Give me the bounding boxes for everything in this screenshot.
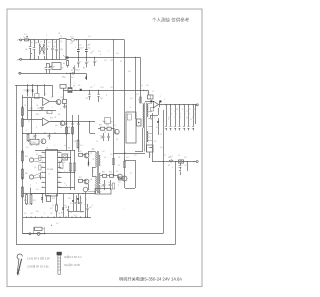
- svg-text:1N: 1N: [174, 117, 177, 119]
- svg-text:4u7: 4u7: [88, 44, 91, 46]
- wire loop outer bottom: [16, 244, 175, 246]
- junction v1: [66, 121, 67, 122]
- junction c3: [46, 59, 47, 60]
- wire L rail: [29, 39, 60, 41]
- resistor R58: [123, 162, 125, 168]
- svg-text:2n2: 2n2: [26, 147, 29, 149]
- svg-text:C2: C2: [102, 121, 104, 123]
- svg-text:D: D: [44, 213, 46, 215]
- svg-text:10k: 10k: [78, 85, 81, 87]
- wire k1 link: [46, 63, 50, 65]
- capacitor C13: [46, 64, 48, 68]
- svg-text:2n2: 2n2: [140, 85, 143, 87]
- component box VR2: [37, 85, 39, 94]
- svg-text:D2: D2: [71, 70, 73, 72]
- svg-text:+: +: [43, 101, 44, 103]
- junction f1: [66, 73, 67, 74]
- wire N rail: [22, 59, 60, 61]
- resistor R51: [79, 153, 83, 156]
- resistor R56: [112, 159, 114, 165]
- svg-text:104: 104: [71, 77, 74, 79]
- svg-text:4u7: 4u7: [186, 117, 189, 119]
- svg-text:+: +: [75, 47, 76, 49]
- svg-text:103: 103: [110, 60, 113, 62]
- svg-text:K1: K1: [53, 66, 55, 68]
- component box RY1: [63, 100, 67, 104]
- svg-text:C: C: [60, 109, 62, 111]
- resistor R63: [101, 127, 105, 130]
- svg-text:L1: L1: [40, 42, 42, 44]
- svg-text:C2: C2: [164, 155, 166, 157]
- svg-text:1N: 1N: [104, 157, 107, 159]
- svg-text:D: D: [64, 183, 66, 185]
- junction m2: [42, 193, 43, 194]
- svg-text:Q9: Q9: [116, 171, 118, 173]
- component blob R10: [80, 89, 82, 91]
- fuse F2: [29, 233, 31, 235]
- junction e2: [86, 57, 87, 58]
- wire loop outer left: [16, 85, 18, 245]
- svg-text:C25: C25: [100, 138, 103, 140]
- wire drop187: [187, 162, 189, 172]
- resistor R65: [140, 97, 142, 103]
- junction v4: [89, 121, 90, 122]
- capacitor CY1: [52, 40, 54, 48]
- transistor Q13: [41, 139, 46, 144]
- svg-text:10k: 10k: [30, 145, 33, 147]
- component box X1: [47, 196, 51, 202]
- svg-text:1N: 1N: [54, 117, 57, 119]
- resistor R21: [22, 107, 24, 108]
- resistor R64: [107, 127, 111, 130]
- component box C30: [137, 119, 142, 126]
- svg-text:220u: 220u: [87, 47, 91, 49]
- svg-text:1N: 1N: [58, 33, 61, 35]
- svg-text:U1: U1: [46, 147, 48, 149]
- IC U1 pins left: [42, 152, 46, 154]
- component box K1: [52, 63, 61, 70]
- svg-text:D8: D8: [68, 148, 70, 150]
- component disc D2: [72, 72, 74, 74]
- component box sense: [179, 160, 184, 163]
- wire t2 bottom: [73, 194, 75, 197]
- svg-text:C2: C2: [60, 127, 62, 129]
- svg-text:C8: C8: [87, 62, 89, 64]
- svg-text:C2: C2: [92, 171, 94, 173]
- wire loop outer right: [175, 162, 177, 245]
- svg-text:20排0 6 4P S-1: 20排0 6 4P S-1: [64, 255, 82, 259]
- transistor Q12: [114, 129, 119, 134]
- junction v2: [72, 121, 73, 122]
- svg-text:471: 471: [70, 203, 73, 205]
- resistor R57: [112, 183, 114, 189]
- junction d3: [86, 39, 87, 40]
- svg-text:2n2: 2n2: [80, 212, 83, 214]
- svg-text:F1: F1: [24, 34, 26, 36]
- junction d1: [76, 39, 77, 40]
- junction b1: [30, 59, 31, 60]
- capacitor C41: [76, 196, 78, 203]
- svg-text:Q8: Q8: [90, 179, 92, 181]
- choke L1: [39, 40, 45, 59]
- wire t1 left drop: [142, 128, 144, 152]
- svg-text:D17: D17: [50, 208, 53, 210]
- svg-text:个人测绘 仅供参考: 个人测绘 仅供参考: [152, 16, 190, 23]
- wire v+ bus: [159, 104, 196, 106]
- svg-text:10k: 10k: [84, 204, 87, 206]
- svg-text:1N: 1N: [176, 109, 179, 111]
- svg-text:R1: R1: [64, 77, 66, 79]
- transistor Q3: [56, 100, 61, 105]
- svg-text:C2: C2: [62, 68, 64, 70]
- junction d4: [113, 39, 114, 40]
- svg-text:R42: R42: [25, 173, 28, 175]
- component box C31: [147, 145, 154, 152]
- svg-text:C: C: [146, 91, 148, 93]
- svg-text:1: 1: [42, 151, 43, 153]
- svg-text:R: R: [30, 185, 32, 187]
- svg-text:103: 103: [30, 213, 33, 215]
- svg-text:C: C: [172, 167, 174, 169]
- svg-text:R1: R1: [36, 154, 38, 156]
- svg-text:1N: 1N: [118, 157, 121, 159]
- junction m5: [70, 193, 71, 194]
- svg-text:Q4: Q4: [55, 125, 57, 127]
- svg-text:C2: C2: [28, 204, 30, 206]
- junction i1: [113, 175, 114, 176]
- svg-text:2n2: 2n2: [130, 98, 133, 100]
- svg-text:C41: C41: [68, 198, 71, 200]
- svg-text:36+排P 10 6P: 36+排P 10 6P: [64, 263, 80, 267]
- wire aux drop: [86, 73, 88, 79]
- svg-text:明纬开关电源S-350-24 24V 14.6A: 明纬开关电源S-350-24 24V 14.6A: [119, 276, 182, 283]
- wire loop inner right: [163, 110, 165, 234]
- svg-text:103: 103: [118, 182, 121, 184]
- capacitor C7: [78, 57, 80, 61]
- svg-text:7: 7: [42, 181, 43, 183]
- transformer T2: [95, 152, 98, 167]
- svg-text:R63: R63: [99, 125, 102, 127]
- capacitor C35: [40, 173, 42, 176]
- resistor R26: [28, 133, 30, 134]
- svg-text:R: R: [168, 119, 170, 121]
- bridge pad: [65, 57, 68, 59]
- junction f2: [71, 73, 72, 74]
- svg-text:NTC: NTC: [70, 36, 74, 38]
- junction e3: [94, 57, 95, 58]
- svg-text:AUX: AUX: [97, 191, 102, 194]
- capacitor C40: [180, 163, 182, 166]
- junction d2: [78, 39, 79, 40]
- svg-text:C: C: [150, 155, 152, 157]
- resistor R33: [78, 139, 80, 140]
- svg-text:10k: 10k: [128, 71, 131, 73]
- capacitor C6 bulk: [86, 40, 88, 49]
- wire prot hline: [22, 97, 42, 99]
- svg-text:C2: C2: [104, 132, 106, 134]
- wire bus x135: [135, 57, 137, 119]
- svg-text:+: +: [83, 47, 84, 49]
- svg-text:+: +: [81, 198, 82, 200]
- svg-text:R: R: [36, 127, 38, 129]
- svg-text:Q12: Q12: [113, 125, 116, 127]
- svg-text:4u7: 4u7: [92, 149, 95, 151]
- resistor R52: [79, 179, 83, 182]
- svg-text:2n2: 2n2: [36, 189, 39, 191]
- svg-text:R: R: [140, 91, 142, 93]
- T2 top wires: [88, 151, 96, 153]
- svg-text:10k: 10k: [150, 119, 153, 121]
- wire bus x113: [113, 40, 115, 176]
- resistor R44: [39, 156, 41, 161]
- wire bus x125: [124, 40, 126, 188]
- wire rect drop2: [158, 108, 160, 115]
- junction r90d: [140, 90, 141, 91]
- svg-text:C17: C17: [33, 137, 36, 139]
- capacitor C27: [66, 121, 68, 123]
- resistor R22: [22, 118, 24, 119]
- svg-text:4u7: 4u7: [66, 154, 69, 156]
- wire pin wires: [58, 157, 71, 159]
- svg-text:C: C: [52, 107, 54, 109]
- svg-text:R24: R24: [50, 118, 53, 120]
- svg-text:C16: C16: [37, 108, 40, 110]
- wire bridge top out: [66, 39, 124, 41]
- svg-text:2n2: 2n2: [98, 51, 101, 53]
- svg-text:C: C: [54, 145, 56, 147]
- capacitor C25: [103, 133, 105, 136]
- svg-text:4u7: 4u7: [48, 42, 51, 44]
- junction c2: [52, 39, 53, 40]
- svg-text:R61: R61: [102, 172, 105, 174]
- svg-text:103: 103: [110, 154, 113, 156]
- svg-text:472: 472: [136, 94, 139, 96]
- svg-text:R31: R31: [68, 127, 71, 129]
- svg-text:RV: RV: [25, 49, 28, 51]
- svg-text:C2: C2: [52, 205, 54, 207]
- capacitor C23: [89, 90, 91, 94]
- capacitor C8: [86, 57, 88, 61]
- wire bus x66: [66, 105, 68, 151]
- svg-text:C7: C7: [79, 62, 81, 64]
- bridge BD1: [59, 39, 66, 60]
- resistor R71: [26, 194, 28, 195]
- svg-text:R1: R1: [54, 42, 56, 44]
- svg-text:2W: 2W: [110, 122, 113, 124]
- svg-text:6: 6: [42, 176, 43, 178]
- ground sym1: [63, 106, 66, 108]
- svg-text:10k: 10k: [24, 213, 27, 215]
- svg-text:C45: C45: [89, 207, 92, 209]
- svg-text:2: 2: [42, 156, 43, 158]
- svg-text:2n2: 2n2: [56, 223, 59, 225]
- component box aux: [95, 189, 111, 195]
- svg-text:TL494: TL494: [47, 169, 54, 171]
- svg-text:C: C: [86, 199, 88, 201]
- svg-text:103: 103: [92, 159, 95, 161]
- svg-text:BD: BD: [61, 49, 64, 51]
- svg-text:8: 8: [42, 186, 43, 188]
- svg-text:2n2: 2n2: [102, 151, 105, 153]
- component box snub: [151, 108, 154, 112]
- junction r90e: [143, 90, 144, 91]
- svg-text:Cy: Cy: [53, 46, 55, 48]
- resistor R45: [39, 165, 41, 170]
- svg-text:103: 103: [110, 87, 113, 89]
- capacitor C21: [104, 180, 106, 184]
- wire loop inner left: [22, 95, 24, 234]
- wire rail217: [23, 217, 91, 219]
- terminal E: [19, 72, 21, 74]
- junction rail217 dots: [26, 217, 27, 218]
- svg-text:4u7: 4u7: [108, 182, 111, 184]
- svg-text:R62: R62: [109, 172, 112, 174]
- diode D11: [154, 101, 159, 107]
- svg-text:10k: 10k: [30, 42, 33, 44]
- svg-text:R1: R1: [124, 94, 126, 96]
- transformer T1: [142, 104, 145, 128]
- transistor Q10: [122, 176, 127, 181]
- svg-text:4: 4: [42, 166, 43, 168]
- svg-text:R11: R11: [24, 90, 27, 92]
- resistor R31: [66, 126, 68, 127]
- bypass label: [51, 225, 52, 226]
- svg-text:R1: R1: [170, 109, 172, 111]
- diode D14: [42, 194, 44, 204]
- svg-text:D: D: [92, 205, 94, 207]
- junction k3: [163, 161, 164, 162]
- svg-text:2n2: 2n2: [184, 165, 187, 167]
- junction n2: [44, 233, 45, 234]
- svg-text:1N: 1N: [60, 36, 63, 38]
- diode D4: [32, 85, 34, 97]
- svg-text:C: C: [36, 183, 38, 185]
- svg-text:R: R: [118, 185, 120, 187]
- svg-text:R: R: [106, 95, 108, 97]
- capacitor C26: [108, 133, 110, 136]
- svg-text:C: C: [176, 114, 178, 116]
- svg-text:R: R: [154, 117, 156, 119]
- junction k2: [187, 161, 188, 162]
- svg-text:FR107: FR107: [76, 70, 81, 72]
- wire oa2 hline: [22, 133, 70, 135]
- varistor RV1: [30, 40, 32, 47]
- resistor R41: [22, 150, 24, 151]
- svg-text:C: C: [171, 114, 173, 116]
- svg-text:L: L: [17, 40, 19, 42]
- wire rail193: [23, 193, 95, 195]
- terminal V-: [196, 161, 198, 163]
- junction g3: [44, 84, 45, 85]
- thermistor NTC: [71, 39, 75, 42]
- svg-text:C2: C2: [178, 155, 180, 157]
- resistor R43: [22, 186, 24, 187]
- snubber caps sec: [148, 95, 154, 99]
- svg-text:R51: R51: [79, 151, 82, 153]
- junction v3: [78, 121, 79, 122]
- wire bus x142: [140, 57, 142, 103]
- wire oa2 out: [50, 121, 61, 123]
- svg-text:Q3: Q3: [51, 97, 53, 99]
- svg-text:C: C: [108, 51, 110, 53]
- resistor R25: [47, 111, 52, 114]
- svg-text:472: 472: [90, 87, 93, 89]
- svg-text:R: R: [180, 117, 182, 119]
- wire ac bottom: [23, 233, 29, 235]
- svg-text:D6: D6: [58, 114, 60, 116]
- svg-text:3: 3: [42, 161, 43, 163]
- wire rail90: [63, 90, 149, 92]
- svg-text:2n2: 2n2: [110, 185, 113, 187]
- svg-text:R23: R23: [36, 114, 39, 116]
- svg-text:CJ: CJ: [48, 174, 50, 176]
- legend hook symbol: [17, 254, 23, 275]
- svg-text:D: D: [182, 109, 184, 111]
- svg-text:103: 103: [60, 150, 63, 152]
- svg-text:1k2: 1k2: [104, 122, 107, 124]
- svg-text:C23: C23: [86, 98, 89, 100]
- IC U1 pins right: [58, 152, 62, 154]
- svg-text:C2: C2: [152, 91, 154, 93]
- svg-text:U2: U2: [44, 94, 46, 96]
- svg-text:10k: 10k: [50, 213, 53, 215]
- svg-text:C: C: [180, 114, 182, 116]
- svg-text:C: C: [50, 136, 52, 138]
- wire f3 feed: [70, 73, 72, 87]
- svg-text:R41: R41: [25, 156, 28, 158]
- junction p2: [22, 162, 23, 163]
- resistor R53: [69, 163, 72, 171]
- svg-text:472: 472: [58, 187, 61, 189]
- svg-text:C2: C2: [186, 111, 188, 113]
- svg-text:C2: C2: [92, 51, 94, 53]
- svg-text:1N: 1N: [24, 105, 27, 107]
- svg-text:4u7: 4u7: [80, 145, 83, 147]
- wire rect drop1: [152, 113, 154, 162]
- transistor Q6: [29, 175, 33, 179]
- transistor Q7: [84, 153, 89, 158]
- junction m6: [83, 193, 84, 194]
- svg-text:CN: CN: [184, 157, 186, 159]
- svg-text:+: +: [123, 209, 125, 211]
- wire vref bus: [50, 121, 96, 123]
- junction t1a: [113, 128, 114, 129]
- component box bypass: [35, 227, 43, 230]
- transistor Q11: [83, 187, 88, 192]
- svg-text:472: 472: [154, 141, 157, 143]
- svg-text:103: 103: [32, 139, 35, 141]
- transistor Q9: [117, 174, 122, 179]
- capacitor CX2: [46, 40, 48, 48]
- diode D15: [78, 194, 80, 204]
- svg-text:10k: 10k: [116, 53, 119, 55]
- wire v89 drop: [89, 121, 91, 133]
- terminal L: [20, 39, 22, 41]
- svg-text:R9: R9: [83, 68, 85, 70]
- diode D9: [88, 161, 90, 167]
- wire oa2 in: [22, 119, 42, 121]
- svg-text:R: R: [130, 107, 132, 109]
- svg-text:472: 472: [134, 155, 137, 157]
- svg-text:C9: C9: [96, 61, 98, 63]
- svg-text:D: D: [46, 35, 48, 37]
- svg-text:C43: C43: [52, 198, 55, 200]
- svg-text:C2: C2: [160, 134, 162, 136]
- junction m1: [35, 193, 36, 194]
- diode D16: [73, 196, 75, 206]
- junction r90a: [75, 90, 76, 91]
- svg-text:R1: R1: [120, 61, 122, 63]
